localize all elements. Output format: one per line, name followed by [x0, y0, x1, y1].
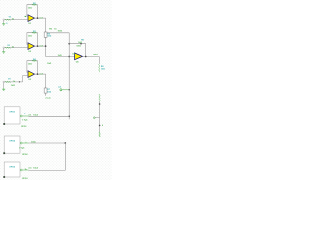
svg-text:XFG2: XFG2	[9, 141, 15, 143]
svg-text:XFG2: XFG2	[22, 154, 28, 156]
svg-text:1 Vpk: 1 Vpk	[22, 119, 28, 121]
svg-text:1kΩ: 1kΩ	[101, 68, 105, 70]
svg-text:1kΩ: 1kΩ	[47, 91, 51, 93]
svg-text:XFG3: XFG3	[9, 167, 15, 169]
svg-text:XFG1: XFG1	[9, 111, 15, 113]
svg-text:1kΩ: 1kΩ	[58, 55, 62, 57]
svg-text:1 Vpk: 1 Vpk	[19, 147, 25, 149]
svg-text:1kΩ: 1kΩ	[28, 64, 32, 66]
svg-text:1kΩ: 1kΩ	[11, 85, 15, 87]
svg-text:1kΩ: 1kΩ	[47, 36, 51, 38]
svg-text:XFG3: XFG3	[22, 178, 28, 180]
svg-text:1kΩ: 1kΩ	[28, 8, 32, 10]
svg-text:vout: vout	[93, 53, 98, 56]
svg-text:1kΩ: 1kΩ	[47, 63, 51, 65]
svg-text:XFG1: XFG1	[21, 126, 27, 128]
svg-text:vsum: vsum	[45, 97, 51, 99]
svg-text:1kΩ: 1kΩ	[78, 42, 82, 44]
svg-text:1kΩ: 1kΩ	[28, 36, 32, 38]
